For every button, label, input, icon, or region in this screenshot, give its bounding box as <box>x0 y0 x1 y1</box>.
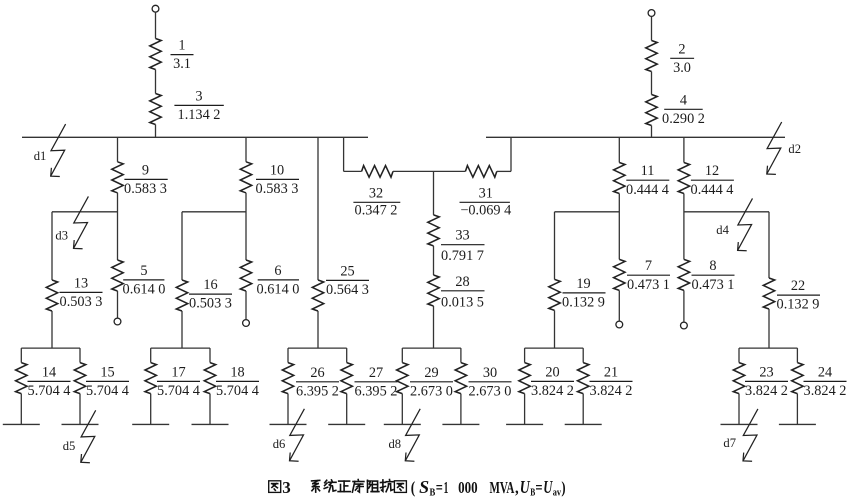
wire R19 to conn20-21 <box>554 310 556 348</box>
svg-text:B: B <box>430 488 436 499</box>
svg-text:0.614 0: 0.614 0 <box>257 282 300 298</box>
wire R3 to bus B1 <box>155 125 157 138</box>
wire bus to R9 <box>117 137 119 162</box>
terminal load T7 <box>616 321 623 328</box>
label 15/5.704 4 <box>86 364 129 399</box>
resistor 26 (6.395 2) <box>282 363 293 394</box>
ground bar under R15 <box>62 423 99 425</box>
wire bus right (net B2) <box>486 136 785 138</box>
svg-text:,: , <box>515 478 519 497</box>
fault d8 <box>405 409 420 461</box>
wire connector 20-21 <box>525 347 584 349</box>
label 33/0.791 7 <box>441 228 484 265</box>
fault d5 <box>81 410 96 462</box>
wire R28 to conn29-30 <box>433 306 435 348</box>
label 19/0.132 9 <box>562 276 605 311</box>
svg-text:0.132 9: 0.132 9 <box>562 295 605 311</box>
label 27/6.395 2 <box>355 365 398 400</box>
svg-text:13: 13 <box>74 275 88 291</box>
wire jog node12 to branch22 <box>684 211 769 213</box>
svg-text:3.824 2: 3.824 2 <box>531 383 574 399</box>
svg-text:av: av <box>553 488 562 499</box>
label 4/0.290 2 <box>662 92 705 127</box>
svg-text:3.0: 3.0 <box>673 60 691 76</box>
resistor 24 (3.824 2) <box>792 363 803 394</box>
wire leg18 top <box>209 348 211 363</box>
svg-text:24: 24 <box>818 364 832 380</box>
svg-text:B: B <box>530 488 535 499</box>
label 14/5.704 4 <box>28 364 71 399</box>
svg-text:22: 22 <box>791 278 805 294</box>
caption char 阻 <box>368 480 379 492</box>
svg-text:25: 25 <box>340 263 354 279</box>
wire bus left (net B1) <box>22 136 368 138</box>
svg-text:d2: d2 <box>788 142 801 156</box>
label 22/0.132 9 <box>777 278 820 313</box>
svg-text:d1: d1 <box>34 149 47 163</box>
svg-text:33: 33 <box>455 228 469 244</box>
label 31/−0.069 4 <box>460 185 511 218</box>
svg-text:3: 3 <box>282 478 291 497</box>
wire leg15 bottom <box>79 394 81 425</box>
resistor 5 (0.614 0) <box>112 260 123 291</box>
resistor 32 (0.347 2) <box>362 166 393 178</box>
svg-text:6.395 2: 6.395 2 <box>296 383 339 399</box>
svg-text:d3: d3 <box>55 228 68 242</box>
svg-text:1: 1 <box>178 38 185 54</box>
wire S2 to R2 <box>651 16 653 40</box>
terminal source S1 <box>152 5 159 12</box>
resistor 2 (3.0) <box>646 41 657 72</box>
wire leg17 bottom <box>150 394 152 425</box>
wire leg14 top <box>20 348 22 363</box>
wire connector 23-24 <box>739 347 797 349</box>
caption char 图 (1) <box>269 481 281 493</box>
svg-text:15: 15 <box>100 364 114 380</box>
svg-text:d7: d7 <box>723 436 736 450</box>
wire connector 14-15 <box>21 347 80 349</box>
wire leg23 bottom <box>738 394 740 425</box>
svg-text:9: 9 <box>142 162 149 178</box>
caption char 统 <box>324 480 336 492</box>
wire tie left <box>344 170 362 172</box>
ground bar under R26 <box>270 423 307 425</box>
svg-text:3.824 2: 3.824 2 <box>745 383 788 399</box>
wire leg29 bottom <box>401 394 403 425</box>
svg-text:0.347 2: 0.347 2 <box>355 202 398 218</box>
caption figure title <box>269 477 566 499</box>
svg-text:d8: d8 <box>389 437 402 451</box>
svg-text:0.444 4: 0.444 4 <box>626 182 669 198</box>
terminal load T5 <box>114 318 121 325</box>
wire leg20 bottom <box>524 394 526 425</box>
wire R11 to R7 <box>618 194 620 260</box>
svg-text:7: 7 <box>645 258 652 274</box>
svg-text:3.824 2: 3.824 2 <box>590 383 633 399</box>
resistor 7 (0.473 1) <box>614 259 625 290</box>
wire leg30 top <box>460 348 462 363</box>
label 28/0.013 5 <box>441 274 484 311</box>
wire leg17 top <box>150 348 152 363</box>
label 1/3.1 <box>173 38 191 73</box>
wire R5 to terminal <box>117 291 119 318</box>
wire leg14 bottom <box>20 394 22 425</box>
svg-text:5.704 4: 5.704 4 <box>28 383 71 399</box>
wire R1 to R3 <box>155 70 157 94</box>
svg-text:23: 23 <box>759 364 773 380</box>
svg-text:0.290 2: 0.290 2 <box>662 111 705 127</box>
svg-text:=: = <box>436 478 443 497</box>
wire leg20 top <box>524 348 526 363</box>
wire R22 to conn23-24 <box>768 309 770 348</box>
svg-text:6.395 2: 6.395 2 <box>355 383 398 399</box>
label 25/0.564 3 <box>326 263 369 298</box>
resistor 25 (0.564 3) <box>312 280 323 311</box>
svg-text:28: 28 <box>455 274 469 290</box>
resistor 13 (0.503 3) <box>46 280 57 311</box>
svg-text:32: 32 <box>369 185 383 201</box>
resistor 14 (5.704 4) <box>16 363 27 394</box>
wire R4 to bus B2 <box>651 126 653 138</box>
svg-text:0.583 3: 0.583 3 <box>124 181 167 197</box>
resistor 8 (0.473 1) <box>678 259 689 290</box>
svg-text:0.444 4: 0.444 4 <box>691 182 734 198</box>
wire leg29 top <box>401 348 403 363</box>
resistor 28 (0.013 5) <box>428 275 439 306</box>
resistor 3 (1.134 2) <box>150 94 161 125</box>
resistor 6 (0.614 0) <box>240 260 251 291</box>
svg-text:=: = <box>535 478 542 497</box>
wire leg26 top <box>287 348 289 363</box>
svg-text:5.704 4: 5.704 4 <box>86 383 129 399</box>
svg-text:27: 27 <box>369 365 383 381</box>
svg-text:20: 20 <box>545 364 559 380</box>
svg-text:0.503 3: 0.503 3 <box>60 294 103 310</box>
svg-text:): ) <box>561 478 565 497</box>
label 6/0.614 0 <box>257 263 300 298</box>
wire R8 to terminal <box>683 290 685 321</box>
resistor 9 (0.583 3) <box>112 162 123 193</box>
wire R10 to R6 <box>245 193 247 260</box>
ground bar under R29 <box>384 423 421 425</box>
svg-text:10: 10 <box>270 162 284 178</box>
resistor 21 (3.824 2) <box>578 363 589 394</box>
label 2/3.0 <box>673 41 691 76</box>
wire leg23 top <box>738 348 740 363</box>
svg-text:0.583 3: 0.583 3 <box>256 181 299 197</box>
wire branch16 down <box>181 212 183 280</box>
label 9/0.583 3 <box>124 162 167 197</box>
wire branch13 down <box>51 212 53 280</box>
resistor 1 (3.1) <box>150 39 161 70</box>
caption char 序 <box>352 480 364 493</box>
caption char 系 <box>312 480 320 492</box>
label 17/5.704 4 <box>157 364 200 399</box>
wire leg21 top <box>582 348 584 363</box>
wire R33 to R28 <box>433 246 435 275</box>
svg-text:1: 1 <box>444 478 449 497</box>
ground bar under R23 <box>721 423 758 425</box>
label 16/0.503 3 <box>189 277 232 312</box>
ground bar under R17 <box>132 423 169 425</box>
resistor 16 (0.503 3) <box>176 280 187 311</box>
label 24/3.824 2 <box>804 364 847 399</box>
resistor 23 (3.824 2) <box>733 363 744 394</box>
svg-text:MVA: MVA <box>490 478 515 497</box>
wire R2 to R4 <box>651 72 653 95</box>
wire bus to R25 <box>317 137 319 280</box>
label 29/2.673 0 <box>410 365 453 400</box>
svg-text:0.614 0: 0.614 0 <box>123 282 166 298</box>
fault d3 <box>74 196 89 248</box>
label 11/0.444 4 <box>626 163 669 198</box>
caption char 抗 <box>381 480 394 492</box>
label 7/0.473 1 <box>627 258 670 293</box>
resistor 33 (0.791 7) <box>428 215 439 246</box>
ground bar under R21 <box>565 423 602 425</box>
wire R9 to R5 <box>117 193 119 260</box>
svg-text:d5: d5 <box>63 439 76 453</box>
wire bus to R12 <box>683 137 685 162</box>
svg-text:0.013 5: 0.013 5 <box>441 294 484 310</box>
wire bus to R11 <box>618 137 620 162</box>
wire branch19 down <box>554 212 556 280</box>
wire jog node10 to branch16 <box>182 211 246 213</box>
svg-text:18: 18 <box>230 364 244 380</box>
label 12/0.444 4 <box>691 163 734 198</box>
resistor 11 (0.444 4) <box>614 163 625 194</box>
resistor 10 (0.583 3) <box>240 162 251 193</box>
wire leg21 bottom <box>582 394 584 425</box>
wire node M to R31 <box>434 170 466 172</box>
wire connector 17-18 <box>151 347 210 349</box>
resistor 17 (5.704 4) <box>145 363 156 394</box>
wire leg24 top <box>796 348 798 363</box>
resistor 20 (3.824 2) <box>519 363 530 394</box>
fault d2 <box>767 122 782 174</box>
svg-text:19: 19 <box>576 276 590 292</box>
wire leg15 top <box>79 348 81 363</box>
ground bar under R27 <box>328 423 365 425</box>
svg-text:000: 000 <box>458 478 478 497</box>
wire R6 to terminal <box>245 291 247 320</box>
svg-text:3.1: 3.1 <box>173 56 191 72</box>
svg-text:6: 6 <box>274 263 281 279</box>
svg-text:29: 29 <box>424 365 438 381</box>
svg-text:14: 14 <box>42 364 56 380</box>
ground bar under R14 <box>3 423 40 425</box>
wire R13 to conn14-15 <box>51 311 53 348</box>
ground bar under R24 <box>779 423 816 425</box>
label 18/5.704 4 <box>216 364 259 399</box>
resistor 18 (5.704 4) <box>204 363 215 394</box>
svg-text:0.503 3: 0.503 3 <box>189 296 232 312</box>
svg-text:1.134 2: 1.134 2 <box>178 107 221 123</box>
wire S1 to R1 <box>155 12 157 38</box>
svg-text:8: 8 <box>709 258 716 274</box>
svg-text:11: 11 <box>641 163 655 179</box>
wire leg27 bottom <box>346 394 348 425</box>
svg-text:0.473 1: 0.473 1 <box>627 277 670 293</box>
label 20/3.824 2 <box>531 364 574 399</box>
svg-text:U: U <box>520 477 531 497</box>
wire jog node9 to branch13 <box>52 211 118 213</box>
label 32/0.347 2 <box>355 185 398 218</box>
svg-text:−0.069 4: −0.069 4 <box>460 202 511 218</box>
wire R16 to conn17-18 <box>181 311 183 348</box>
svg-text:5.704 4: 5.704 4 <box>157 383 200 399</box>
resistor 19 (0.132 9) <box>549 279 560 310</box>
svg-text:0.564 3: 0.564 3 <box>326 282 369 298</box>
svg-text:d6: d6 <box>273 437 286 451</box>
wire leg18 bottom <box>209 394 211 425</box>
svg-text:0.132 9: 0.132 9 <box>777 297 820 313</box>
svg-text:5: 5 <box>140 263 147 279</box>
fault d7 <box>743 409 758 461</box>
resistor 4 (0.290 2) <box>646 95 657 126</box>
svg-text:U: U <box>543 477 553 497</box>
wire leg26 bottom <box>287 394 289 425</box>
wire connector 26-27 <box>288 347 347 349</box>
wire jog node11 to branch19 <box>555 211 620 213</box>
wire R25 to conn26-27 <box>317 311 319 348</box>
wire bus to R10 <box>245 137 247 162</box>
svg-text:(: ( <box>411 478 416 497</box>
ground bar under R30 <box>442 423 479 425</box>
svg-text:0.473 1: 0.473 1 <box>692 277 735 293</box>
resistor 30 (2.673 0) <box>455 363 466 394</box>
wire R32 to node M <box>393 170 434 172</box>
svg-text:21: 21 <box>604 364 618 380</box>
resistor 15 (5.704 4) <box>74 363 85 394</box>
svg-text:4: 4 <box>680 92 687 108</box>
svg-text:16: 16 <box>203 277 217 293</box>
svg-text:2: 2 <box>678 41 685 57</box>
svg-text:17: 17 <box>171 364 185 380</box>
terminal load T6 <box>243 320 250 327</box>
label 3/1.134 2 <box>178 88 221 123</box>
wire bus B1 down to tie <box>343 137 345 171</box>
svg-text:3: 3 <box>195 88 202 104</box>
ground bar under R18 <box>192 423 229 425</box>
wire leg27 top <box>346 348 348 363</box>
label 23/3.824 2 <box>745 364 788 399</box>
wire tie up to bus B2 <box>510 137 512 171</box>
resistor 29 (2.673 0) <box>397 363 408 394</box>
svg-text:S: S <box>419 477 429 497</box>
svg-text:d4: d4 <box>716 223 729 237</box>
svg-text:2.673 0: 2.673 0 <box>469 383 512 399</box>
wire branch22 down <box>768 212 770 278</box>
fault d1 <box>51 124 66 176</box>
caption char 图 (2) <box>394 481 406 493</box>
label 13/0.503 3 <box>60 275 103 310</box>
wire leg24 bottom <box>796 394 798 425</box>
resistor 27 (6.395 2) <box>341 363 352 394</box>
svg-text:26: 26 <box>310 365 324 381</box>
wire R31 right <box>497 170 511 172</box>
svg-text:30: 30 <box>483 365 497 381</box>
wire R12 to R8 <box>683 194 685 260</box>
wire connector 29-30 <box>402 347 461 349</box>
label 5/0.614 0 <box>123 263 166 298</box>
resistor 12 (0.444 4) <box>678 163 689 194</box>
label 21/3.824 2 <box>590 364 633 399</box>
wire leg30 bottom <box>460 394 462 425</box>
wire R7 to terminal <box>618 290 620 320</box>
label 10/0.583 3 <box>256 162 299 197</box>
svg-text:3.824 2: 3.824 2 <box>804 383 847 399</box>
terminal source S2 <box>648 10 655 17</box>
fault d4 <box>738 198 753 250</box>
svg-text:12: 12 <box>705 163 719 179</box>
svg-text:5.704 4: 5.704 4 <box>216 383 259 399</box>
fault d6 <box>290 409 305 461</box>
resistor 22 (0.132 9) <box>763 278 774 309</box>
wire node M down <box>433 171 435 215</box>
svg-text:2.673 0: 2.673 0 <box>410 383 453 399</box>
svg-text:31: 31 <box>479 185 493 201</box>
svg-text:0.791 7: 0.791 7 <box>441 248 484 264</box>
resistor 31 (-0.069 4) <box>465 166 496 178</box>
caption char 正 <box>338 481 350 492</box>
terminal load T8 <box>681 322 688 329</box>
label 26/6.395 2 <box>296 365 339 400</box>
label 30/2.673 0 <box>469 365 512 400</box>
ground bar under R20 <box>506 423 543 425</box>
label 8/0.473 1 <box>692 258 735 293</box>
